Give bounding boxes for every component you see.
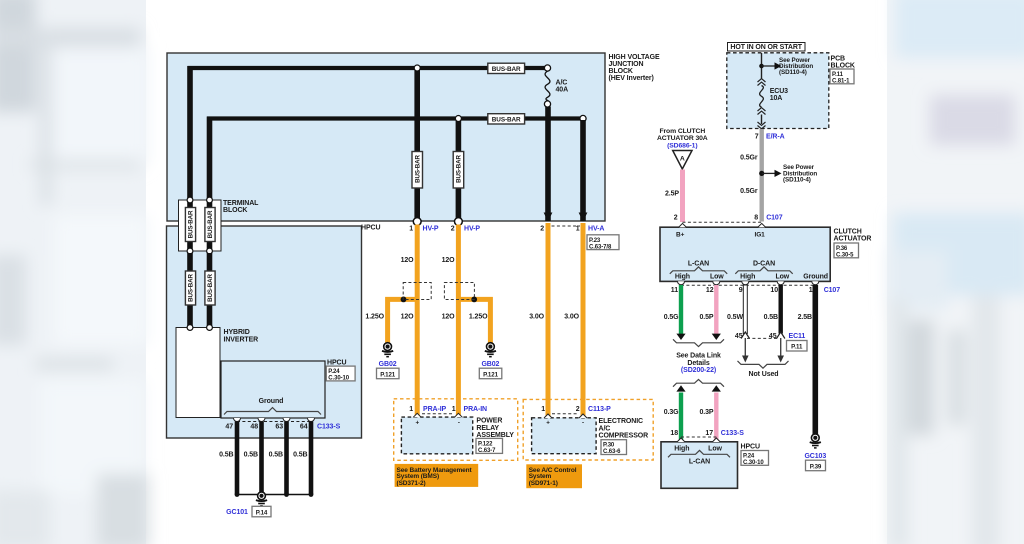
svg-text:POWER: POWER — [476, 418, 502, 425]
bus-bar wire second horizontal — [207, 117, 213, 201]
svg-text:HIGH VOLTAGE: HIGH VOLTAGE — [609, 54, 660, 61]
svg-text:HPCU: HPCU — [361, 225, 380, 232]
svg-text:+: + — [415, 420, 419, 427]
svg-text:10: 10 — [770, 287, 778, 294]
svg-text:2: 2 — [451, 226, 455, 233]
ground GC103 — [810, 434, 821, 448]
svg-text:BUS-BAR: BUS-BAR — [492, 66, 521, 73]
left blurred sidebar — [0, 0, 149, 544]
svg-text:2: 2 — [540, 226, 544, 233]
svg-text:C107: C107 — [766, 215, 783, 222]
orange HV wire 1 — [415, 225, 420, 418]
svg-text:0.5W: 0.5W — [727, 314, 743, 321]
svg-text:P.11: P.11 — [832, 72, 844, 78]
svg-text:2: 2 — [576, 406, 580, 413]
A/C compressor dashed enclosure — [523, 399, 653, 460]
svg-text:7: 7 — [755, 134, 759, 141]
junction to power distribution top — [759, 64, 764, 69]
svg-text:C.30-10: C.30-10 — [328, 376, 349, 382]
connector C107 top — [683, 221, 762, 223]
not used stubs — [744, 338, 746, 358]
svg-text:CLUTCH: CLUTCH — [834, 229, 862, 236]
arrowhead at pin 2 — [544, 213, 553, 222]
svg-text:C133-S: C133-S — [721, 430, 745, 437]
svg-text:0.5B: 0.5B — [219, 452, 233, 459]
svg-text:1: 1 — [452, 406, 456, 413]
HPCU sub-box with ground pins — [221, 361, 325, 418]
svg-text:(SD110-4): (SD110-4) — [779, 69, 807, 76]
lower pink 0.3P wire with up arrow — [712, 385, 721, 391]
svg-text:BUS-BAR: BUS-BAR — [492, 117, 521, 124]
white 0.5W wire — [743, 285, 747, 334]
svg-text:48: 48 — [250, 424, 258, 431]
svg-text:P.24: P.24 — [743, 454, 755, 460]
svg-text:(SD110-4): (SD110-4) — [783, 176, 811, 183]
brace above lower L-CAN wires — [673, 379, 724, 386]
clutch actuator box — [660, 227, 830, 281]
svg-text:COMPRESSOR: COMPRESSOR — [599, 433, 649, 440]
wire inside PCB block — [761, 53, 763, 79]
svg-text:BUS-BAR: BUS-BAR — [187, 210, 194, 238]
bus-bar label on line 2 — [488, 114, 525, 124]
orange HV wire 4 — [581, 223, 586, 418]
svg-text:2.5P: 2.5P — [665, 191, 679, 198]
orange HV wire 3 — [546, 223, 551, 418]
from clutch actuator feed — [657, 128, 708, 169]
svg-text:P.36: P.36 — [836, 246, 848, 252]
svg-text:PRA-IN: PRA-IN — [464, 406, 488, 413]
svg-text:0.5B: 0.5B — [293, 452, 307, 459]
svg-text:8: 8 — [754, 215, 758, 222]
svg-text:Ground: Ground — [259, 398, 284, 405]
see a/c control callout — [526, 464, 582, 488]
svg-text:A: A — [680, 156, 685, 163]
svg-text:3.0O: 3.0O — [529, 314, 544, 321]
svg-text:RELAY: RELAY — [476, 425, 499, 432]
thick 2.5B ground wire — [812, 285, 818, 434]
svg-text:1: 1 — [541, 406, 545, 413]
svg-text:1: 1 — [409, 226, 413, 233]
svg-text:C.63-7/8: C.63-7/8 — [589, 244, 612, 250]
four 0.5B ground wires — [235, 422, 240, 495]
bottom pins of clutch actuator — [678, 281, 685, 285]
node line2 right end — [580, 115, 586, 121]
svg-text:Low: Low — [775, 274, 789, 281]
svg-text:JUNCTION: JUNCTION — [609, 61, 644, 68]
terminal block bus-bar 2 — [207, 202, 213, 249]
svg-text:HYBRID: HYBRID — [224, 329, 250, 336]
svg-text:See Data Link: See Data Link — [676, 353, 721, 360]
svg-text:BUS-BAR: BUS-BAR — [207, 273, 214, 301]
svg-text:17: 17 — [705, 430, 713, 437]
svg-text:A/C: A/C — [599, 425, 611, 432]
svg-text:0.5P: 0.5P — [700, 314, 714, 321]
svg-text:C.30-5: C.30-5 — [836, 252, 854, 258]
lower green 0.3G wire with up arrow — [676, 385, 685, 391]
svg-text:0.5Gr: 0.5Gr — [740, 188, 758, 195]
svg-text:BUS-BAR: BUS-BAR — [415, 154, 422, 182]
svg-text:1: 1 — [809, 287, 813, 294]
svg-text:High: High — [675, 274, 690, 281]
MAIN DIAGRAM — [167, 43, 872, 517]
svg-text:GB02: GB02 — [481, 361, 499, 368]
svg-text:1: 1 — [576, 226, 580, 233]
svg-text:-: - — [458, 420, 460, 427]
svg-text:E/R-A: E/R-A — [766, 134, 785, 141]
svg-text:Low: Low — [710, 274, 724, 281]
see battery management callout — [395, 464, 479, 487]
svg-text:B+: B+ — [676, 232, 685, 239]
svg-text:A/C: A/C — [556, 80, 568, 87]
svg-text:GC101: GC101 — [226, 509, 248, 516]
vertical bus-bar to HV-P pin 1 — [414, 68, 420, 221]
vertical bus-bar to HV-P pin 2 — [456, 119, 462, 222]
svg-text:PCB: PCB — [831, 56, 846, 63]
see data link details — [673, 339, 724, 346]
svg-text:0.5B: 0.5B — [269, 452, 283, 459]
branch to GB02 right — [458, 299, 490, 343]
arrowhead at HV-A pin 1 — [579, 213, 588, 222]
lower bus-bar 1 inside inverter — [187, 253, 193, 326]
svg-text:-: - — [582, 420, 584, 427]
svg-text:L-CAN: L-CAN — [689, 459, 710, 466]
svg-text:BUS-BAR: BUS-BAR — [187, 273, 194, 301]
svg-text:1.25O: 1.25O — [365, 314, 384, 321]
svg-text:0.5B: 0.5B — [244, 452, 258, 459]
svg-text:EC11: EC11 — [789, 333, 806, 340]
A/C 40A circuit breaker — [544, 65, 568, 107]
power relay assembly dashed enclosure — [394, 399, 518, 461]
ground GB02 left — [382, 343, 393, 357]
svg-text:0.5Gr: 0.5Gr — [740, 155, 758, 162]
svg-text:1.25O: 1.25O — [469, 314, 488, 321]
wire from line2 end down to HV-A pin 1 — [580, 120, 586, 221]
svg-text:HV-A: HV-A — [588, 226, 604, 233]
lower bus-bar 2 inside inverter — [207, 253, 213, 326]
svg-text:64: 64 — [300, 424, 308, 431]
svg-text:12O: 12O — [442, 314, 456, 321]
svg-text:Low: Low — [708, 446, 722, 453]
svg-text:HV-P: HV-P — [423, 226, 439, 233]
svg-text:(SD971-1): (SD971-1) — [529, 480, 558, 487]
svg-text:0.3P: 0.3P — [700, 409, 714, 416]
svg-text:40A: 40A — [556, 87, 569, 94]
svg-text:PRA-IP: PRA-IP — [423, 406, 447, 413]
svg-text:BUS-BAR: BUS-BAR — [456, 154, 463, 182]
svg-text:C.81-1: C.81-1 — [832, 79, 850, 85]
svg-text:BUS-BAR: BUS-BAR — [207, 210, 214, 238]
PRA inner box — [401, 417, 472, 454]
svg-text:C113-P: C113-P — [588, 406, 611, 413]
svg-text:ELECTRONIC: ELECTRONIC — [599, 418, 644, 425]
svg-text:P.23: P.23 — [589, 238, 601, 244]
bus-bar label on line 1 — [488, 63, 525, 73]
svg-text:Not Used: Not Used — [749, 371, 779, 378]
svg-text:P.30: P.30 — [603, 443, 615, 449]
node pin2 HV-P — [455, 218, 463, 226]
ground GB02 right — [485, 343, 496, 357]
svg-text:P.39: P.39 — [810, 463, 822, 470]
svg-text:High: High — [740, 274, 755, 281]
junction to power distribution on gray wire — [759, 171, 764, 176]
svg-text:HOT IN ON OR START: HOT IN ON OR START — [730, 44, 802, 51]
svg-text:HV-P: HV-P — [464, 226, 480, 233]
svg-text:63: 63 — [275, 424, 283, 431]
svg-text:C.63-7: C.63-7 — [478, 448, 496, 454]
svg-text:(SD200-22): (SD200-22) — [681, 367, 716, 374]
svg-text:12O: 12O — [401, 257, 415, 264]
svg-text:ECU3: ECU3 — [770, 88, 788, 95]
terminal block bottom nodes — [187, 248, 193, 254]
svg-text:C107: C107 — [824, 287, 841, 294]
orange HV wire 2 — [456, 225, 461, 418]
pink 0.5P wire — [714, 285, 718, 335]
hybrid inverter box — [167, 226, 362, 438]
terminal block — [179, 200, 260, 251]
svg-text:12O: 12O — [442, 257, 456, 264]
svg-text:High: High — [674, 446, 689, 453]
svg-text:ACTUATOR 30A: ACTUATOR 30A — [657, 135, 708, 142]
ground GC101 — [256, 492, 267, 506]
svg-text:45: 45 — [769, 333, 777, 340]
svg-text:C.63-6: C.63-6 — [603, 449, 621, 455]
svg-text:Ground: Ground — [803, 274, 828, 281]
svg-text:(HEV Inverter): (HEV Inverter) — [609, 75, 654, 82]
fuse ECU3 10A — [758, 79, 789, 129]
PCB block dashed box — [727, 53, 829, 129]
svg-text:TERMINAL: TERMINAL — [223, 200, 259, 207]
svg-text:BLOCK: BLOCK — [609, 68, 633, 75]
pink wire 2.5P — [680, 170, 685, 223]
svg-text:P.14: P.14 — [256, 509, 268, 516]
joining wire and junction dots — [237, 494, 311, 496]
svg-text:C133-S: C133-S — [317, 424, 341, 431]
svg-text:9: 9 — [739, 287, 743, 294]
svg-text:ACTUATOR: ACTUATOR — [834, 236, 872, 243]
svg-text:(SD371-2): (SD371-2) — [397, 480, 426, 487]
svg-text:47: 47 — [225, 424, 233, 431]
terminal block top nodes — [187, 197, 193, 203]
svg-text:1: 1 — [409, 406, 413, 413]
svg-text:+: + — [546, 420, 550, 427]
hot in on or start tag — [728, 43, 806, 52]
pins 47 48 63 64 on HPCU — [225, 418, 340, 431]
gray wire 0.5Gr — [760, 129, 764, 222]
svg-text:12: 12 — [706, 287, 714, 294]
svg-text:2.5B: 2.5B — [798, 314, 812, 321]
terminal block bus-bar 1 — [187, 202, 193, 249]
HPCU box bottom right — [661, 442, 738, 489]
svg-text:IG1: IG1 — [755, 232, 766, 239]
svg-text:0.5G: 0.5G — [664, 314, 679, 321]
svg-text:GB02: GB02 — [379, 361, 397, 368]
right blurred sidebar — [887, 0, 1024, 544]
svg-text:3.0O: 3.0O — [564, 314, 579, 321]
svg-text:INVERTER: INVERTER — [224, 337, 259, 344]
branch to GB02 left — [388, 299, 418, 343]
node pin1 HV-P — [413, 218, 421, 226]
bus-bar wire top horizontal — [187, 66, 193, 200]
svg-text:P.121: P.121 — [483, 371, 499, 378]
svg-text:P.121: P.121 — [380, 371, 396, 378]
svg-text:0.5B: 0.5B — [764, 314, 778, 321]
green 0.5G wire — [679, 285, 683, 335]
svg-text:45: 45 — [735, 333, 743, 340]
svg-text:P.11: P.11 — [791, 344, 803, 351]
node on line2 at bus-bar 2 — [455, 116, 461, 122]
svg-text:12O: 12O — [401, 314, 415, 321]
svg-text:C.30-10: C.30-10 — [743, 460, 764, 466]
svg-text:18: 18 — [670, 430, 678, 437]
svg-text:P.24: P.24 — [328, 369, 340, 375]
compressor inner box — [532, 418, 597, 454]
svg-text:P.122: P.122 — [478, 442, 493, 448]
svg-text:11: 11 — [671, 287, 678, 294]
high voltage junction block box — [167, 53, 605, 221]
svg-text:Details: Details — [687, 360, 709, 367]
node on line1 at bus-bar 1 — [414, 65, 420, 71]
black 0.5B wire — [779, 285, 783, 334]
svg-text:BLOCK: BLOCK — [223, 207, 247, 214]
inverter white sub-box — [176, 328, 220, 418]
wire from breaker down to pin 2 — [545, 107, 551, 222]
svg-text:0.3G: 0.3G — [664, 409, 679, 416]
svg-text:HPCU: HPCU — [741, 444, 760, 451]
svg-text:(SD686-1): (SD686-1) — [667, 142, 697, 149]
svg-text:GC103: GC103 — [804, 453, 826, 460]
svg-text:10A: 10A — [770, 95, 783, 102]
svg-text:2: 2 — [674, 215, 678, 222]
EC11 joint connector — [741, 332, 749, 339]
